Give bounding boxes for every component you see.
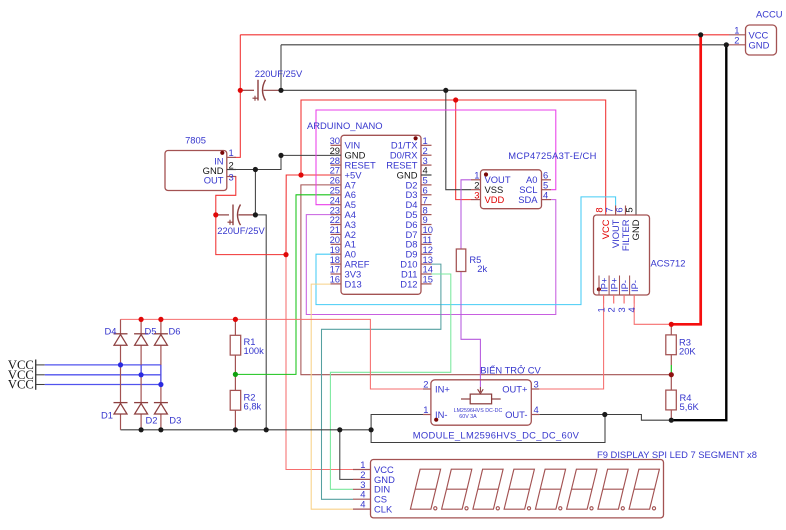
- pin 3 DIN: [353, 488, 371, 490]
- wire +5V drop to display VCC: [286, 255, 353, 470]
- wire GND cap2 branch: [254, 170, 256, 215]
- svg-text:VDD: VDD: [485, 194, 505, 205]
- wire VCC3 blue: [36, 384, 45, 386]
- wire GND rail y=90 to ACS712 pin5: [281, 90, 636, 215]
- diode D5: [134, 326, 156, 346]
- wire A4 SDA orchid to MCP4725: [306, 200, 556, 315]
- wire MCP4725 VOUT violet to R5: [461, 180, 471, 249]
- pin 4 CLK: [353, 508, 371, 510]
- potentiometer symbol: [461, 398, 470, 400]
- 7-segment digit 2: [442, 469, 472, 510]
- pin 30 VIN: [331, 144, 342, 146]
- 7-segment digit 7: [598, 469, 628, 510]
- wire diode column 2: [140, 319, 142, 429]
- svg-text:BIẾN TRỞ CV: BIẾN TRỞ CV: [480, 364, 541, 375]
- svg-text:VCC: VCC: [8, 378, 34, 392]
- svg-text:1: 1: [423, 404, 428, 415]
- wire rectifier output rail to module IN+: [121, 319, 424, 389]
- pin 4 SDA: [542, 199, 552, 201]
- wire diode column 1: [120, 319, 122, 429]
- pin 2 IP+: [613, 295, 615, 304]
- 7-segment digit 3: [473, 469, 503, 510]
- svg-text:ACCU: ACCU: [756, 9, 783, 20]
- pin 29 GND: [331, 154, 342, 156]
- svg-text:15: 15: [423, 274, 433, 285]
- wire D13 orange to display CLK: [311, 284, 353, 509]
- svg-text:OUT+: OUT+: [502, 384, 528, 395]
- pin 2 D0/RX: [421, 154, 432, 156]
- wire D11 light-green to display DIN: [330, 274, 450, 489]
- wire display GND drop: [340, 430, 353, 480]
- pin 3 IP-: [623, 295, 625, 304]
- svg-text:2: 2: [423, 379, 428, 390]
- pin 1 D1/TX: [421, 144, 432, 146]
- 7-segment digit 5: [535, 469, 565, 510]
- svg-text:2: 2: [229, 159, 234, 170]
- node VCC input bus bar: [35, 360, 37, 390]
- pin 1 IN-: [423, 414, 431, 416]
- svg-text:CLK: CLK: [374, 504, 393, 515]
- pin 4 CS: [353, 498, 371, 500]
- resistor R1 100k: [230, 319, 264, 374]
- svg-text:D4: D4: [105, 326, 117, 337]
- wire thick battery GND: [671, 45, 726, 420]
- wire GND to ARDUINO pin29: [281, 154, 331, 156]
- wire VDD drop from +5V rail to MCP4725 pin3: [456, 100, 471, 200]
- 7-segment digit 1: [410, 469, 440, 510]
- pin 2 IN+: [423, 388, 431, 390]
- pin 2 VSS: [471, 189, 481, 191]
- svg-text:4: 4: [543, 189, 548, 200]
- svg-text:D13: D13: [345, 278, 362, 289]
- svg-text:D5: D5: [145, 326, 157, 337]
- pin 19 A0: [331, 253, 342, 255]
- svg-text:5,6K: 5,6K: [680, 401, 700, 412]
- wire GND top rail to ACCU: [281, 44, 729, 46]
- pin 9 D6: [421, 224, 432, 226]
- svg-text:IN+: IN+: [435, 384, 450, 395]
- pin 13 D10: [421, 263, 432, 265]
- pin 2 GND: [353, 478, 371, 480]
- svg-text:MODULE_LM2596HVS_DC_DC_60V: MODULE_LM2596HVS_DC_DC_60V: [413, 430, 580, 441]
- pin 3 VDD: [471, 199, 481, 201]
- pin 3 RESET: [421, 164, 432, 166]
- svg-text:7805: 7805: [185, 135, 206, 146]
- pin 26 A7: [331, 184, 342, 186]
- svg-text:2k: 2k: [477, 263, 487, 274]
- wire GND 7805 pin2 net: [234, 155, 281, 169]
- pin 23 A4: [331, 214, 342, 216]
- display F9 DISPLAY SPI LED 7 SEGMENT x8: [353, 449, 757, 518]
- svg-text:OUT: OUT: [204, 175, 224, 186]
- svg-text:GND: GND: [630, 219, 641, 240]
- 7-segment digit 4: [504, 469, 534, 510]
- wire green tick at R3-R4 node: [670, 365, 672, 373]
- svg-text:MCP4725A3T-E/CH: MCP4725A3T-E/CH: [508, 150, 596, 161]
- capacitor C2 220UF/25V: [216, 205, 266, 236]
- pin 5 SCL: [542, 189, 552, 191]
- regulator U? 7805: [165, 135, 236, 191]
- pin 15 D12: [421, 283, 432, 285]
- capacitor C1 220UF/25V: [240, 68, 303, 101]
- svg-text:2: 2: [606, 307, 617, 312]
- pin 3 OUT+: [531, 388, 539, 390]
- svg-text:IP+: IP+: [608, 277, 619, 292]
- diode D1: [101, 403, 127, 421]
- pin 18 AREF: [331, 263, 342, 265]
- wire VCC2 blue: [36, 374, 45, 376]
- wire bottom GND rail: [121, 429, 372, 431]
- svg-text:3: 3: [474, 189, 479, 200]
- dac U? MCP4725A3T-E/CH: [471, 150, 597, 209]
- pin 10 D7: [421, 233, 432, 235]
- svg-text:4: 4: [360, 499, 365, 510]
- junction dot green R1-R2 tap: [233, 372, 238, 377]
- wire ACS712 IP- to battery plus: [634, 304, 671, 325]
- junction battery VCC node: [698, 32, 703, 37]
- wire module OUT+ to ACS712 IP+: [539, 304, 603, 390]
- resistor R4 5,6K: [666, 375, 700, 421]
- pin 21 A2: [331, 233, 342, 235]
- diode D3: [154, 403, 181, 426]
- svg-text:5: 5: [623, 207, 634, 212]
- resistor R5 2k: [456, 249, 487, 274]
- svg-text:16: 16: [330, 274, 340, 285]
- pin 1 VCC: [353, 469, 371, 471]
- wire +5V rail y=99: [301, 100, 606, 215]
- svg-text:6,8k: 6,8k: [244, 401, 262, 412]
- svg-text:100k: 100k: [244, 345, 265, 356]
- svg-text:3: 3: [229, 171, 234, 182]
- wire GND rail under module to OUT-: [371, 415, 605, 443]
- wire R5 to potentiometer wiper: [461, 272, 480, 388]
- pin 25 A6: [331, 194, 342, 196]
- wire +5V net cap2 to junction: [216, 215, 286, 255]
- wire VCC top rail to ACCU: [240, 34, 729, 36]
- wire A5 SCL magenta to MCP4725: [316, 110, 556, 205]
- pin 22 A3: [331, 224, 342, 226]
- pin 16 D13: [331, 283, 342, 285]
- wire A6 to R1-R2 divider tap: [235, 195, 330, 375]
- buck converter MODULE_LM2596HVS_DC_DC_60V: [413, 364, 580, 440]
- svg-text:ARDUINO_NANO: ARDUINO_NANO: [307, 120, 383, 131]
- pin 20 A1: [331, 243, 342, 245]
- svg-text:ACS712: ACS712: [651, 257, 686, 268]
- svg-text:D2: D2: [146, 414, 158, 425]
- pin 11 D8: [421, 243, 432, 245]
- wire GND from cap2 down to bottom rail: [255, 215, 266, 430]
- svg-text:3: 3: [534, 379, 539, 390]
- svg-text:4: 4: [626, 307, 637, 312]
- svg-text:2: 2: [734, 34, 739, 45]
- svg-text:220UF/25V: 220UF/25V: [217, 225, 265, 236]
- diode D4: [105, 326, 128, 346]
- wire D10 teal to display CS: [322, 264, 441, 499]
- wire VCC1 blue: [36, 364, 45, 366]
- svg-text:F9 DISPLAY SPI LED 7 SEGMENT x: F9 DISPLAY SPI LED 7 SEGMENT x8: [597, 449, 757, 460]
- junction dots black nets: [278, 88, 283, 93]
- wire A0 cyan to ACS712 VIOUT: [316, 197, 616, 305]
- wire 7805 OUT to cap2: [216, 177, 236, 215]
- resistor R3 20K: [666, 324, 697, 365]
- junction dots red nets: [238, 88, 243, 93]
- wire GND riser from cap1 to top rail: [280, 45, 282, 91]
- current sensor U? ACS712: [593, 206, 685, 313]
- wire diode column 3: [160, 319, 162, 429]
- junction dots blue VCC inputs: [118, 362, 123, 367]
- pin 1 IP+: [603, 295, 605, 304]
- pin 12 D9: [421, 253, 432, 255]
- pin 24 A5: [331, 204, 342, 206]
- wire module IN- to GND rail: [371, 415, 423, 430]
- svg-text:D3: D3: [169, 414, 181, 425]
- pin 27 +5V: [331, 174, 342, 176]
- svg-text:IP-: IP-: [629, 280, 640, 292]
- pin 6 A0: [542, 179, 552, 181]
- diode D2: [134, 403, 157, 426]
- svg-text:20K: 20K: [679, 346, 696, 357]
- wire module OUT- to R4 and battery GND: [539, 415, 671, 421]
- pin 17 3V3: [331, 273, 342, 275]
- junction dot R3-R4 tap: [669, 372, 674, 377]
- 7-segment digit 8: [629, 469, 659, 510]
- svg-text:GND: GND: [749, 40, 770, 51]
- pin 4 OUT-: [531, 414, 539, 416]
- svg-text:60V 3A: 60V 3A: [459, 414, 477, 420]
- pin 4 IP-: [633, 295, 635, 304]
- svg-text:D1: D1: [101, 410, 113, 421]
- svg-text:OUT-: OUT-: [505, 409, 527, 420]
- resistor R2 6,8k: [230, 374, 261, 429]
- svg-text:IN-: IN-: [435, 409, 448, 420]
- battery connector ACCU: [729, 9, 783, 56]
- svg-text:4: 4: [534, 404, 539, 415]
- wire A7 to R3-R4 divider (battery sense): [301, 185, 672, 375]
- diode D6: [154, 326, 181, 346]
- mcu U? ARDUINO_NANO: [307, 120, 433, 294]
- wire GND drop to MCP4725 VSS pin2: [446, 90, 471, 189]
- svg-text:220UF/25V: 220UF/25V: [255, 68, 303, 79]
- wire 7805 IN riser: [234, 35, 240, 158]
- svg-text:1: 1: [229, 147, 234, 158]
- pin 14 D11: [421, 273, 432, 275]
- 7-segment digit 6: [567, 469, 597, 510]
- pin 4 GND: [421, 174, 432, 176]
- pin 8 D5: [421, 214, 432, 216]
- pin 5 D2: [421, 184, 432, 186]
- svg-text:D12: D12: [400, 278, 417, 289]
- pin 7 D4: [421, 204, 432, 206]
- pin 28 RESET: [331, 164, 342, 166]
- pin 6 D3: [421, 194, 432, 196]
- pin 1 VOUT: [471, 179, 481, 181]
- svg-text:D6: D6: [169, 326, 181, 337]
- svg-text:SDA: SDA: [518, 194, 538, 205]
- wire thick battery VCC: [671, 35, 700, 325]
- wire +5V to ARDUINO pin27: [286, 175, 331, 255]
